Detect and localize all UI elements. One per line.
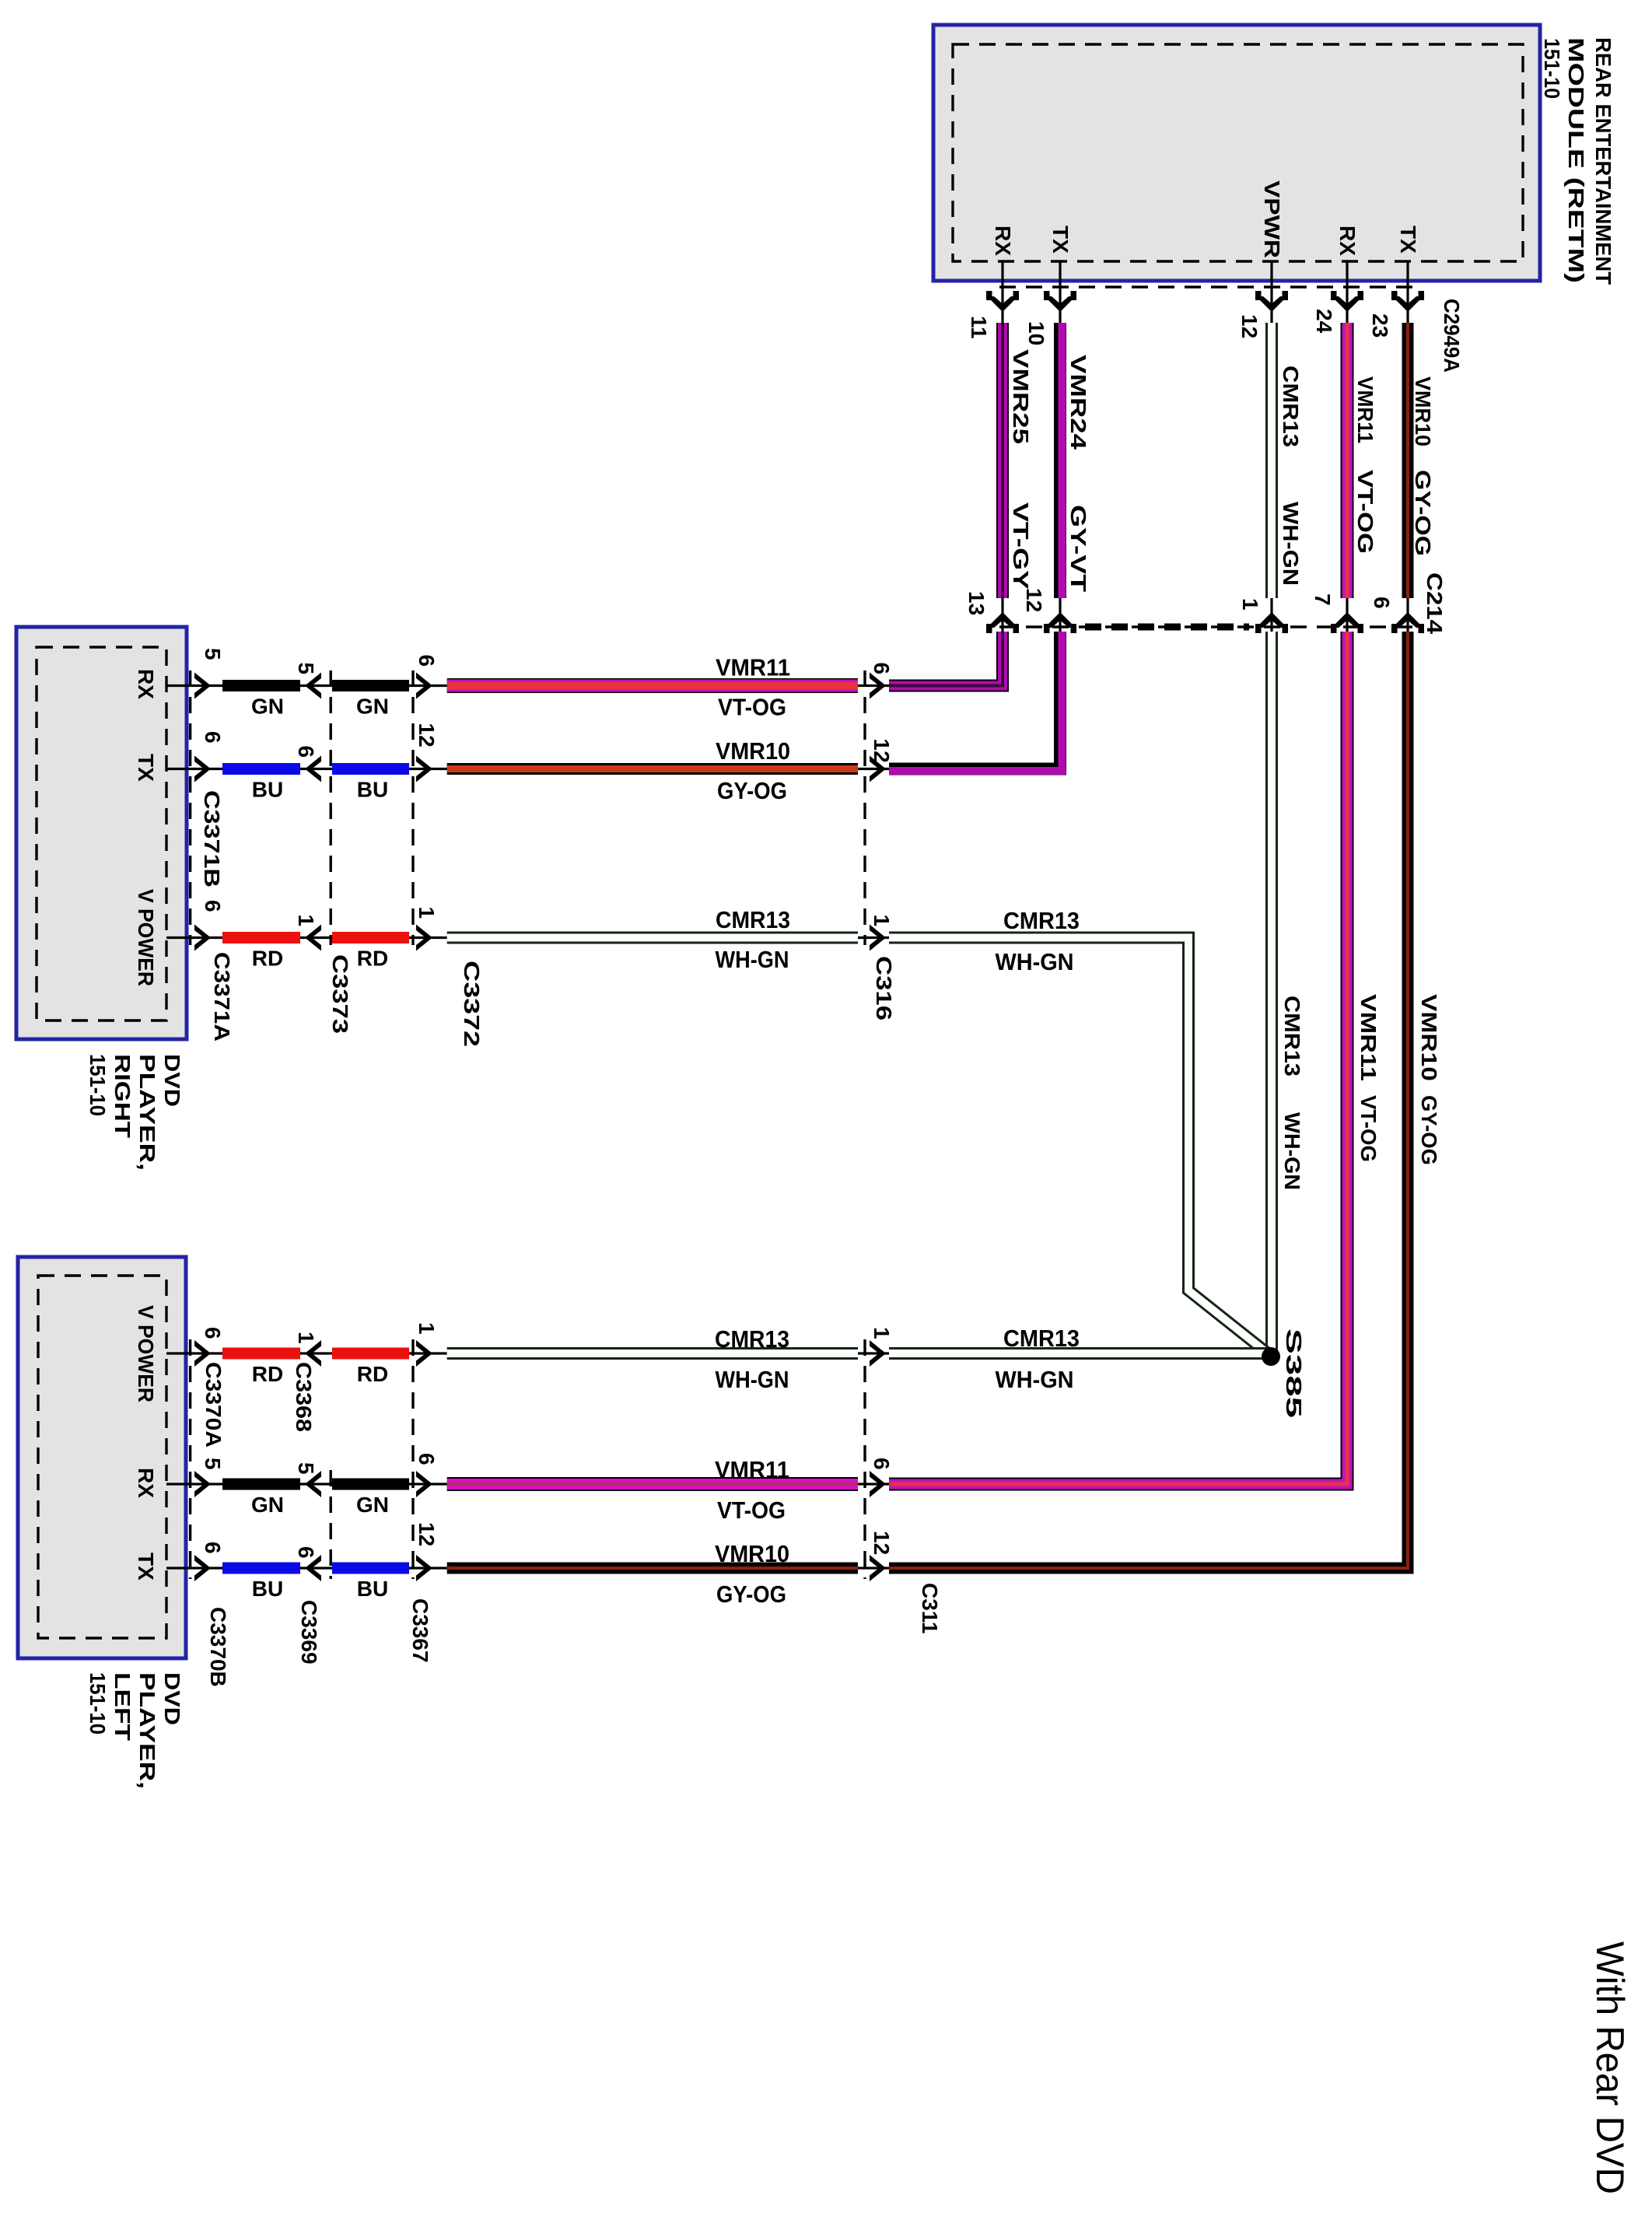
svg-text:C3370B: C3370B	[206, 1607, 230, 1687]
wire link row RX right player	[300, 684, 336, 687]
svg-text:VT-OG: VT-OG	[1353, 470, 1377, 554]
arrow row V POWER left player into mid connector	[305, 1340, 321, 1367]
wire RD segment 1 row V POWER left player	[222, 1348, 300, 1360]
svg-text:TX: TX	[1048, 226, 1073, 254]
svg-text:DVD: DVD	[160, 1054, 184, 1107]
connector C3369 dashed line	[330, 1470, 332, 1579]
svg-text:RX: RX	[134, 1468, 158, 1498]
svg-text:6: 6	[294, 746, 318, 758]
wire VMR11 VT-OG row RX	[447, 678, 858, 693]
svg-text:12: 12	[1237, 314, 1262, 338]
arrow row TX left player into mid connector	[305, 1555, 321, 1581]
svg-text:VMR11: VMR11	[1353, 376, 1377, 443]
svg-text:10: 10	[1024, 321, 1048, 345]
svg-text:C3370A: C3370A	[201, 1362, 226, 1448]
svg-text:C3367: C3367	[408, 1598, 432, 1663]
splice S385	[1262, 1347, 1280, 1366]
wire RD segment 2 row V POWER right player	[332, 932, 409, 943]
connector C3370 dashed line	[189, 1339, 191, 1579]
connector C3371 dashed line	[189, 670, 191, 945]
wire RD segment 2 row V POWER left player	[332, 1348, 409, 1360]
wire stub row V POWER right player from module	[166, 936, 226, 939]
svg-text:RX: RX	[991, 226, 1015, 256]
svg-text:151-10: 151-10	[86, 1054, 110, 1116]
svg-text:5: 5	[294, 663, 318, 675]
svg-text:1: 1	[870, 915, 894, 927]
svg-text:VMR11: VMR11	[716, 654, 790, 681]
svg-text:GN: GN	[251, 1493, 284, 1517]
arrow row RX left player into module connector	[194, 1471, 211, 1497]
svg-text:C3371A: C3371A	[210, 952, 234, 1041]
arrow into C2949A pin RX2	[1332, 296, 1363, 312]
svg-text:VMR11: VMR11	[1356, 994, 1381, 1081]
wire link 2 row TX left player	[409, 1567, 447, 1569]
svg-text:C3369: C3369	[297, 1600, 321, 1665]
wire CMR13 WH-GN vertical to splice S385	[1265, 632, 1278, 1357]
wire stub to C214	[1346, 598, 1348, 632]
svg-text:6: 6	[201, 1542, 225, 1554]
arrow row RX left player out of harness connector	[416, 1471, 432, 1497]
svg-text:GN: GN	[356, 1493, 389, 1517]
wire link 3 row TX right player	[858, 768, 889, 770]
arrow into C214	[1392, 612, 1423, 628]
arrow into C214	[1332, 612, 1363, 628]
wire link 2 row V POWER left player	[409, 1352, 447, 1354]
wire link 2 row TX right player	[409, 768, 447, 770]
svg-text:CMR13: CMR13	[1003, 1325, 1080, 1352]
arrow row TX left player out of harness connector	[416, 1555, 432, 1581]
wire VMR11 VT-OG vertical upper	[1341, 323, 1354, 598]
svg-text:CMR13: CMR13	[1003, 907, 1080, 934]
svg-text:WH-GN: WH-GN	[1280, 1112, 1304, 1190]
svg-text:GY-OG: GY-OG	[717, 777, 787, 804]
svg-text:RX: RX	[134, 669, 158, 699]
svg-text:RD: RD	[252, 1362, 283, 1386]
svg-text:TX: TX	[1396, 226, 1420, 254]
svg-text:BU: BU	[252, 1577, 283, 1601]
arrow into C214	[1256, 612, 1287, 628]
svg-text:S385: S385	[1282, 1329, 1306, 1418]
connector C3367 dashed line	[411, 1339, 414, 1579]
wire stub pin TX1 RETM	[1059, 261, 1061, 325]
svg-text:VPWR: VPWR	[1260, 180, 1284, 258]
svg-text:PLAYER,: PLAYER,	[135, 1672, 159, 1789]
svg-text:13: 13	[964, 591, 989, 615]
svg-text:VMR10: VMR10	[1417, 994, 1441, 1081]
arrow row V POWER left player out of harness connector	[416, 1340, 432, 1367]
wire VMR10 GY-OG vertical upper	[1402, 323, 1414, 598]
svg-text:RD: RD	[357, 1362, 388, 1386]
connector C3373 dashed line	[330, 670, 332, 945]
svg-text:C214: C214	[1423, 572, 1447, 635]
arrow row TX right player into mid connector	[305, 756, 321, 782]
wire CMR13 WH-GN row V POWER	[447, 932, 858, 944]
wire VMR25 VT-GY lower L to row RX right	[889, 632, 1003, 686]
wire stub row V POWER left player from module	[166, 1352, 226, 1354]
svg-text:BU: BU	[252, 778, 283, 802]
wire link row V POWER right player	[300, 936, 336, 939]
arrow row V POWER right player into mid connector	[305, 925, 321, 951]
wire stub row TX right player from module	[166, 768, 226, 770]
svg-text:5: 5	[201, 1458, 225, 1470]
arrow row V POWER right player at inline connector	[870, 925, 886, 951]
connector C214 dashed line	[999, 625, 1414, 628]
wire BU segment 2 row TX left player	[332, 1563, 409, 1574]
svg-text:WH-GN: WH-GN	[716, 946, 789, 973]
svg-text:GN: GN	[251, 695, 284, 719]
arrow row RX right player out of harness connector	[416, 673, 432, 699]
svg-text:6: 6	[1370, 597, 1394, 609]
svg-text:151-10: 151-10	[1540, 38, 1564, 99]
svg-text:GY-OG: GY-OG	[1417, 1095, 1441, 1165]
svg-text:RD: RD	[252, 947, 283, 971]
connector C311 dashed line	[863, 1339, 866, 1579]
svg-text:1: 1	[294, 915, 318, 927]
svg-text:VMR24: VMR24	[1066, 355, 1090, 450]
svg-text:RIGHT: RIGHT	[110, 1054, 135, 1138]
wire GN segment 1 row RX left player	[222, 1479, 300, 1490]
svg-text:6: 6	[415, 655, 439, 667]
wire link 2 row V POWER right player	[409, 936, 447, 939]
svg-text:With Rear DVD: With Rear DVD	[1588, 1941, 1632, 2194]
wire link 3 row RX left player	[858, 1483, 889, 1485]
svg-text:6: 6	[294, 1546, 318, 1559]
svg-text:GY-OG: GY-OG	[1411, 470, 1435, 556]
wire RD segment 1 row V POWER right player	[222, 932, 300, 943]
wire CMR13 WH-GN bottom row	[447, 1347, 858, 1360]
wire link 3 row TX left player	[858, 1567, 889, 1569]
wire CMR13 WH-GN bottom right segment to splice	[889, 1347, 1268, 1360]
svg-text:12: 12	[415, 723, 439, 747]
wire CMR13 WH-GN vertical upper	[1265, 323, 1278, 598]
svg-text:12: 12	[1022, 588, 1046, 612]
svg-text:REAR ENTERTAINMENT: REAR ENTERTAINMENT	[1591, 37, 1615, 285]
wire BU segment 1 row TX right player	[222, 763, 300, 775]
svg-text:WH-GN: WH-GN	[1279, 502, 1303, 586]
svg-text:WH-GN: WH-GN	[996, 1366, 1074, 1393]
svg-text:11: 11	[967, 316, 991, 339]
connector C2949A dashed line	[999, 285, 1414, 288]
arrow row TX left player into module connector	[194, 1555, 211, 1581]
arrow into C2949A pin TX1	[1045, 296, 1076, 312]
svg-text:6: 6	[201, 1327, 225, 1339]
wire link 2 row RX left player	[409, 1483, 447, 1485]
svg-text:WH-GN: WH-GN	[996, 948, 1074, 975]
svg-text:6: 6	[870, 663, 894, 675]
arrow row TX left player at inline connector	[870, 1555, 886, 1581]
wire VMR24 GY-VT vertical	[1054, 323, 1066, 598]
arrow row RX right player into mid connector	[305, 673, 321, 699]
svg-text:12: 12	[870, 739, 894, 763]
wire VMR10 GY-OG row TX	[447, 763, 858, 775]
svg-text:CMR13: CMR13	[1280, 996, 1304, 1076]
svg-text:VMR10: VMR10	[715, 1540, 789, 1567]
svg-text:7: 7	[1311, 593, 1335, 606]
svg-text:12: 12	[415, 1522, 439, 1546]
wire stub row TX left player from module	[166, 1567, 226, 1569]
wire link 2 row RX right player	[409, 684, 447, 687]
wire stub to C214	[1406, 598, 1409, 632]
wire stub pin VPWR RETM	[1270, 261, 1272, 325]
arrow row RX left player at inline connector	[870, 1471, 886, 1497]
arrow row RX left player into mid connector	[305, 1471, 321, 1497]
arrow row TX right player out of harness connector	[416, 756, 432, 782]
arrow row TX right player at inline connector	[870, 756, 886, 782]
wire stub pin RX2 RETM	[1346, 261, 1348, 325]
wire VMR24 GY-VT lower L to row TX right	[889, 632, 1060, 769]
svg-text:6: 6	[870, 1458, 894, 1470]
wire stub pin TX2 RETM	[1406, 261, 1409, 325]
svg-text:1: 1	[1238, 598, 1262, 611]
arrow into C214	[987, 612, 1018, 628]
arrow row RX right player at inline connector	[870, 673, 886, 699]
arrow row V POWER right player into module connector	[194, 925, 211, 951]
arrow into C2949A pin VPWR	[1256, 296, 1287, 312]
module DVD PLAYER LEFT box	[18, 1257, 186, 1658]
arrow row V POWER left player at inline connector	[870, 1340, 886, 1367]
arrow row TX right player into module connector	[194, 756, 211, 782]
svg-text:VT-OG: VT-OG	[717, 1497, 786, 1524]
svg-text:151-10: 151-10	[86, 1672, 110, 1735]
wire GN segment 2 row RX left player	[332, 1479, 409, 1490]
svg-text:VMR25: VMR25	[1009, 349, 1033, 444]
wire stub row RX left player from module	[166, 1483, 226, 1485]
wire stub to C214	[1270, 598, 1272, 632]
wire stub row RX right player from module	[166, 684, 226, 687]
svg-text:GY-VT: GY-VT	[1066, 505, 1090, 592]
svg-text:24: 24	[1312, 309, 1336, 334]
wire link row TX left player	[300, 1567, 336, 1569]
svg-text:C3368: C3368	[292, 1362, 316, 1432]
svg-text:C316: C316	[872, 956, 896, 1020]
svg-text:5: 5	[294, 1462, 318, 1475]
svg-text:GY-OG: GY-OG	[716, 1581, 786, 1608]
svg-text:GN: GN	[356, 695, 389, 719]
wire stub to C214	[1001, 598, 1003, 632]
connector C3372 dashed line	[411, 670, 414, 945]
svg-text:LEFT: LEFT	[110, 1672, 135, 1741]
svg-text:6: 6	[415, 1453, 439, 1465]
arrow into C2949A pin RX1	[987, 296, 1018, 312]
wire CMR13 WH-GN right segment to splice	[889, 938, 1272, 1357]
svg-text:CMR13: CMR13	[1279, 366, 1303, 447]
svg-text:CMR13: CMR13	[715, 1325, 789, 1353]
arrow into C214	[1045, 612, 1076, 628]
svg-text:WH-GN: WH-GN	[716, 1366, 789, 1393]
wire link 3 row RX right player	[858, 684, 889, 687]
arrow into C2949A pin TX2	[1392, 296, 1423, 312]
svg-text:C3371B: C3371B	[200, 790, 224, 887]
svg-text:C311: C311	[918, 1583, 942, 1633]
svg-text:DVD: DVD	[160, 1672, 184, 1725]
svg-text:BU: BU	[357, 1577, 388, 1601]
wire link 3 row V POWER left player	[858, 1352, 889, 1354]
svg-text:1: 1	[870, 1327, 894, 1339]
svg-text:BU: BU	[357, 778, 388, 802]
svg-text:TX: TX	[134, 754, 158, 782]
wire BU segment 1 row TX left player	[222, 1563, 300, 1574]
wire GN segment 2 row RX right player	[332, 680, 409, 691]
wire stub to C214	[1059, 598, 1061, 632]
wire VMR11 VT-OG lower L to bottom RX row	[889, 632, 1347, 1484]
svg-text:6: 6	[201, 900, 225, 912]
arrow row V POWER right player out of harness connector	[416, 925, 432, 951]
wire stub pin RX1 RETM	[1001, 261, 1003, 325]
svg-text:23: 23	[1368, 313, 1392, 338]
wire GN segment 1 row RX right player	[222, 680, 300, 691]
wire VMR25 VT-GY vertical	[996, 323, 1009, 598]
module DVD PLAYER RIGHT box	[16, 627, 187, 1039]
svg-text:VT-GY: VT-GY	[1009, 502, 1033, 590]
svg-text:C3372: C3372	[460, 961, 484, 1047]
wire VMR11 VT-OG bottom RX row	[447, 1477, 858, 1491]
svg-text:V POWER: V POWER	[134, 889, 158, 986]
svg-text:C3373: C3373	[328, 954, 352, 1034]
svg-text:5: 5	[201, 648, 225, 660]
wire link 3 row V POWER right player	[858, 936, 889, 939]
wire BU segment 2 row TX right player	[332, 763, 409, 775]
wire link row V POWER left player	[300, 1352, 336, 1354]
arrow row V POWER left player into module connector	[194, 1340, 211, 1367]
module RETM box	[933, 25, 1540, 281]
arrow row RX right player into module connector	[194, 673, 211, 699]
connector C316 dashed line	[863, 670, 866, 945]
svg-text:PLAYER,: PLAYER,	[135, 1054, 159, 1171]
svg-text:RD: RD	[357, 947, 388, 971]
svg-text:VMR10: VMR10	[1411, 376, 1435, 446]
svg-text:12: 12	[870, 1531, 894, 1555]
wire link row TX right player	[300, 768, 336, 770]
wire VMR10 GY-OG bottom TX row	[447, 1563, 858, 1574]
svg-text:1: 1	[415, 1322, 439, 1335]
svg-text:RX: RX	[1335, 226, 1360, 256]
svg-text:V POWER: V POWER	[134, 1305, 158, 1402]
svg-text:1: 1	[294, 1332, 318, 1344]
svg-text:VT-OG: VT-OG	[718, 694, 786, 721]
svg-text:MODULE (RETM): MODULE (RETM)	[1564, 37, 1588, 283]
svg-text:6: 6	[201, 731, 225, 744]
svg-text:VT-OG: VT-OG	[1356, 1095, 1381, 1162]
svg-text:1: 1	[415, 907, 439, 919]
svg-text:VMR10: VMR10	[716, 737, 790, 765]
wire link row RX left player	[300, 1483, 336, 1485]
wire VMR10 GY-OG lower L to bottom TX row	[889, 632, 1408, 1568]
svg-text:CMR13: CMR13	[716, 906, 790, 933]
svg-text:C2949A: C2949A	[1440, 299, 1464, 373]
svg-text:VMR11: VMR11	[715, 1456, 789, 1483]
svg-text:TX: TX	[134, 1553, 158, 1581]
